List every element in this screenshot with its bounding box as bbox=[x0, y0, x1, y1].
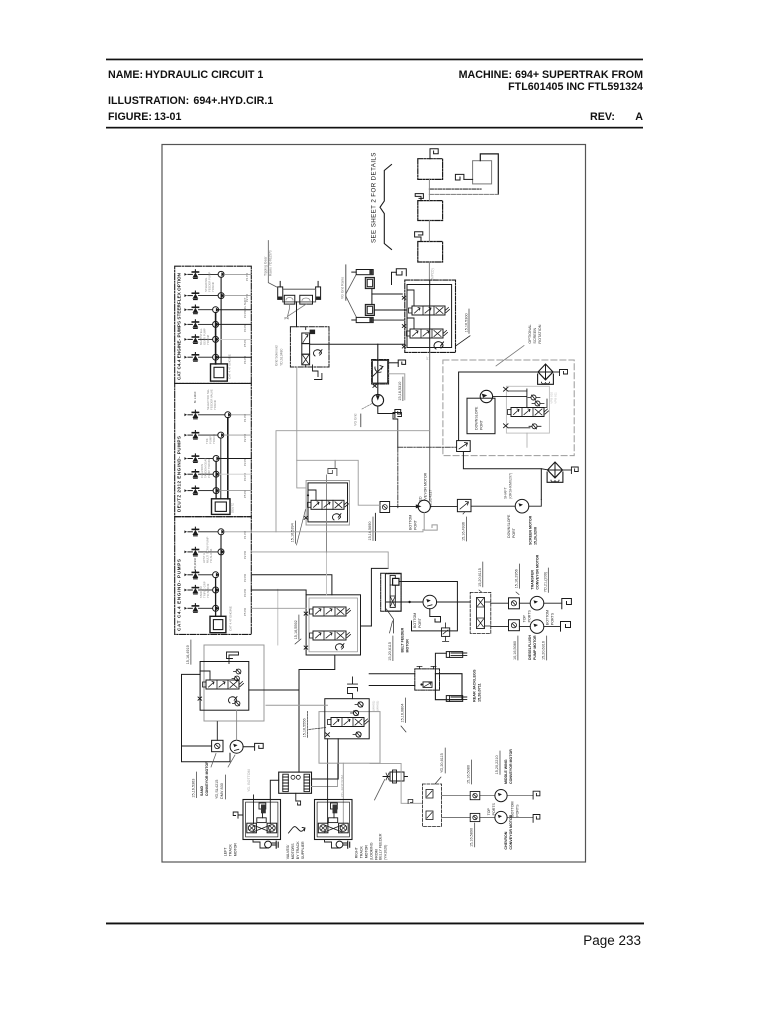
vg valve top bbox=[365, 277, 374, 288]
svg-text:YD,20,6115: YD,20,6115 bbox=[440, 753, 444, 773]
svg-text:P5 PR: P5 PR bbox=[243, 339, 247, 347]
box3 check valve row 1 bbox=[184, 527, 198, 536]
feed conveyor motor bbox=[416, 500, 431, 512]
chevron dashed box bbox=[422, 784, 441, 826]
squiggle arrow bbox=[289, 827, 306, 833]
svg-text:PT: PT bbox=[426, 356, 430, 360]
svg-text:CONVEYOR MOTOR: CONVEYOR MOTOR bbox=[205, 761, 209, 796]
belt feeder motor label bbox=[401, 627, 410, 652]
valve block V4 bbox=[381, 573, 401, 633]
relief a bbox=[234, 669, 241, 674]
svg-text:(YH1026): (YH1026) bbox=[384, 845, 388, 860]
wire bbox=[199, 434, 218, 436]
svg-text:BOTTOM: BOTTOM bbox=[408, 515, 412, 530]
wire box1 r4 bbox=[219, 323, 252, 325]
sand conveyor motor label bbox=[200, 761, 209, 796]
wire gray bbox=[266, 704, 328, 706]
port hook bbox=[398, 360, 405, 367]
manifold bbox=[279, 772, 312, 793]
svg-text:TRACK: TRACK bbox=[229, 844, 233, 857]
leader dash bbox=[362, 404, 372, 410]
svg-text:YD,SL6049: YD,SL6049 bbox=[206, 583, 210, 598]
svg-text:15,26,3208: 15,26,3208 bbox=[533, 527, 537, 545]
wire bbox=[327, 739, 329, 824]
brace bbox=[380, 165, 392, 250]
wire bbox=[553, 371, 560, 373]
vg valve bottom bbox=[365, 304, 374, 315]
wire gray bbox=[370, 763, 422, 803]
wire bbox=[480, 154, 498, 195]
svg-text:PORT: PORT bbox=[418, 617, 422, 628]
wire jog bbox=[407, 290, 414, 306]
box1 pump P3 bbox=[213, 307, 219, 313]
box2 check valve row 3 bbox=[184, 454, 198, 463]
label 15,16,0804 bbox=[400, 698, 406, 732]
wire bbox=[493, 389, 527, 408]
wire bbox=[375, 780, 385, 801]
tank T4 bbox=[418, 242, 443, 263]
valves by track supplier label bbox=[286, 841, 305, 859]
svg-text:MOTOR: MOTOR bbox=[234, 843, 238, 857]
X mark bbox=[326, 733, 330, 737]
wire bbox=[199, 414, 225, 416]
svg-text:SUPPLIER: SUPPLIER bbox=[301, 841, 305, 859]
relief c bbox=[233, 701, 240, 706]
wire box2 r1 bbox=[231, 414, 252, 416]
label 15,20,2210 bbox=[495, 751, 500, 774]
svg-text:CONVEYOR MOTOR: CONVEYOR MOTOR bbox=[536, 554, 540, 589]
wire bbox=[296, 302, 298, 327]
downslope port label bbox=[507, 514, 516, 538]
svg-text:PORTS: PORTS bbox=[492, 802, 496, 815]
box2 pump bus wire 3 bbox=[215, 462, 217, 499]
wire bbox=[529, 499, 542, 506]
box3 gray label block 2 bbox=[199, 581, 210, 598]
svg-text:MOTOR: MOTOR bbox=[364, 845, 368, 859]
optional screen rotation label bbox=[528, 324, 542, 343]
rotation diamond D2 bbox=[547, 462, 563, 482]
wire bbox=[390, 505, 418, 507]
tipping gear label bbox=[264, 250, 273, 276]
tiny gray labels bbox=[372, 701, 380, 711]
svg-text:A: A bbox=[635, 111, 643, 123]
box3 check valve row 2 bbox=[184, 547, 198, 556]
wire box2 r5 bbox=[219, 490, 251, 492]
box1 gray label block bbox=[204, 272, 215, 292]
label 15,16,4936 bbox=[462, 512, 467, 541]
svg-text:YD. BOTTOM: YD. BOTTOM bbox=[341, 775, 345, 797]
svg-text:LEFT: LEFT bbox=[224, 847, 228, 857]
box3 check valve row 4 bbox=[184, 585, 198, 594]
wire L path bbox=[182, 674, 231, 761]
svg-text:PORT: PORT bbox=[413, 519, 417, 530]
port hook bbox=[561, 622, 571, 632]
bottom ports label bbox=[510, 801, 519, 816]
top ports label bbox=[487, 802, 496, 815]
valve block V5 gray outer bbox=[204, 645, 264, 721]
wire bbox=[288, 304, 307, 316]
pilot arrow bbox=[336, 644, 344, 650]
svg-text:P5 PR: P5 PR bbox=[243, 608, 247, 616]
label 15,16,2956 bbox=[515, 564, 520, 595]
box3 check valve row 5 bbox=[184, 604, 198, 613]
wire bbox=[182, 745, 212, 747]
wire box3 r4 bbox=[251, 590, 306, 595]
wire bbox=[199, 323, 213, 325]
svg-text:OPTIONAL: OPTIONAL bbox=[528, 324, 532, 343]
box2 engine block bbox=[212, 499, 231, 515]
wire jog bbox=[200, 671, 210, 680]
suction dash line bbox=[429, 188, 481, 190]
wire bbox=[389, 362, 399, 364]
mpcd return wire bbox=[526, 433, 528, 447]
svg-text:15,16,5363: 15,16,5363 bbox=[192, 779, 196, 798]
return dash line bbox=[429, 193, 498, 195]
svg-text:PORTS: PORTS bbox=[551, 612, 555, 625]
wire box3 r5 bbox=[251, 607, 306, 609]
boundary dash line bbox=[398, 447, 457, 507]
box2 check valve row 5 bbox=[184, 486, 198, 495]
valve block V1 inner bbox=[407, 285, 452, 348]
vpb labels bbox=[550, 392, 558, 404]
svg-text:(LOOKING: (LOOKING bbox=[369, 842, 373, 860]
wire box3 r1 bbox=[224, 531, 276, 533]
wire bbox=[491, 602, 562, 604]
wire box1 r1 bbox=[224, 273, 251, 275]
box1 row port labels bbox=[243, 273, 249, 364]
port hook bbox=[562, 599, 572, 609]
label 15,16,5394 bbox=[291, 510, 306, 546]
wire box1 r2 bbox=[224, 295, 251, 297]
box1 check valve row 5 bbox=[184, 335, 198, 344]
valve block V6 gray outer bbox=[319, 712, 380, 764]
svg-text:P5 PR: P5 PR bbox=[243, 490, 247, 498]
screen motor bbox=[515, 499, 529, 513]
port hook bbox=[227, 652, 239, 664]
svg-text:15,20,6316: 15,20,6316 bbox=[542, 641, 546, 660]
box1 pump bus wire bbox=[220, 277, 222, 364]
X mark bbox=[402, 345, 405, 348]
port hook bbox=[243, 743, 263, 750]
label 15,20,6115 bbox=[388, 621, 393, 661]
svg-text:15,20,6115: 15,20,6115 bbox=[478, 568, 482, 587]
rear jacklegs lines bbox=[369, 674, 415, 686]
wire bbox=[386, 601, 423, 603]
tank T3 port hook bbox=[415, 194, 423, 201]
manifold gauges bbox=[291, 775, 300, 779]
vg ram bottom bbox=[352, 317, 373, 322]
svg-text:BOTTOM: BOTTOM bbox=[546, 610, 550, 625]
tank T3 bbox=[418, 201, 443, 221]
wire bbox=[430, 505, 457, 507]
downslope port box bbox=[467, 398, 495, 434]
wire dot bbox=[307, 494, 309, 496]
gray enclosure bbox=[297, 460, 380, 505]
pump box 1 border (CAT C4.4 STEERFLEX) bbox=[175, 266, 252, 383]
vg pump bbox=[372, 394, 384, 406]
svg-text:TOP: TOP bbox=[522, 614, 526, 622]
tank T1 breather port bbox=[430, 149, 438, 159]
svg-text:(WH02): (WH02) bbox=[376, 701, 380, 711]
port hook bbox=[571, 467, 578, 474]
box1 check valve row 3 bbox=[184, 305, 198, 314]
label YD.SL4215 bbox=[215, 775, 226, 799]
transfer motor A bbox=[530, 596, 544, 610]
wire gray bbox=[312, 763, 338, 786]
left track motor label bbox=[224, 843, 238, 857]
box1 pump P1 bbox=[218, 271, 224, 277]
svg-text:YD,SL4215: YD,SL4215 bbox=[215, 780, 219, 799]
svg-text:15,20,2210: 15,20,2210 bbox=[495, 755, 499, 774]
X mark bbox=[402, 296, 405, 299]
svg-text:PR,11910: PR,11910 bbox=[193, 557, 197, 570]
wire bbox=[297, 460, 306, 488]
port hook bbox=[424, 513, 437, 531]
grid solenoid box bbox=[290, 327, 329, 367]
box1 check valve row 4 bbox=[184, 320, 198, 329]
pump box 3 border (CAT C4.4) bbox=[175, 517, 252, 635]
wire bbox=[313, 365, 322, 380]
feed conveyor motor label bbox=[419, 472, 433, 507]
svg-text:PORT: PORT bbox=[480, 419, 484, 430]
X mark bbox=[304, 646, 308, 649]
relief b bbox=[232, 676, 239, 681]
svg-text:MIDDLE WING: MIDDLE WING bbox=[504, 759, 508, 784]
wire bbox=[346, 296, 356, 317]
svg-text:Grid Solenoid: Grid Solenoid bbox=[275, 345, 279, 366]
wire box2 r2 bbox=[224, 434, 252, 436]
svg-text:NAME: HYDRAULIC CIRCUIT 1: NAME: HYDRAULIC CIRCUIT 1 bbox=[108, 69, 263, 81]
pilot arrow bbox=[434, 342, 443, 349]
box3 row port labels bbox=[243, 531, 247, 616]
port hook bbox=[396, 269, 406, 276]
leader wire bbox=[268, 241, 276, 287]
wire bbox=[199, 589, 213, 591]
tank T1 bbox=[418, 159, 443, 180]
wire gray bbox=[389, 374, 405, 400]
spool valve S7 bbox=[328, 718, 369, 727]
svg-text:CAT C4.4 ENGINE- PUMPS STEERFL: CAT C4.4 ENGINE- PUMPS STEERFLEX OPTION bbox=[177, 272, 182, 380]
port hook bbox=[233, 812, 243, 818]
svg-text:P3 PR: P3 PR bbox=[243, 574, 247, 582]
wire bbox=[305, 365, 307, 367]
svg-text:YD6048: YD6048 bbox=[212, 433, 216, 444]
rotation valve cluster gray box bbox=[506, 386, 549, 433]
valve VS1 on boundary bbox=[457, 441, 471, 452]
svg-text:DEUTZ 2012 ENGIND- PUMPS: DEUTZ 2012 ENGIND- PUMPS bbox=[177, 436, 182, 512]
valve block V5 bbox=[200, 662, 249, 711]
wire bbox=[372, 293, 402, 295]
svg-text:BOTTOM: BOTTOM bbox=[510, 801, 514, 816]
wire bbox=[371, 568, 388, 626]
label 15,20,6316 bbox=[542, 636, 547, 660]
belly feeder label bbox=[379, 833, 388, 860]
wire bbox=[373, 319, 405, 321]
box1 pump P2 bbox=[218, 293, 224, 299]
box3 pump P4 bbox=[213, 587, 219, 593]
wire bbox=[199, 607, 213, 609]
wire bbox=[199, 458, 214, 460]
wire loop bbox=[399, 582, 457, 631]
tank T2 bbox=[473, 161, 492, 184]
wire bbox=[216, 722, 218, 741]
tipping valve right bbox=[300, 295, 313, 304]
middle wing motor bbox=[495, 790, 507, 802]
svg-text:P4: P4 bbox=[285, 317, 289, 321]
svg-text:15,16,2956: 15,16,2956 bbox=[515, 569, 519, 588]
wire bbox=[541, 469, 548, 470]
valve block V3 (15,16,5592) bbox=[306, 595, 360, 655]
svg-text:Rams YD762570: Rams YD762570 bbox=[269, 250, 273, 276]
svg-text:CHEVRON: CHEVRON bbox=[504, 831, 508, 849]
jackleg wire loop bbox=[435, 674, 462, 700]
svg-text:BELT FEEDER: BELT FEEDER bbox=[401, 627, 405, 652]
middle wing label bbox=[504, 749, 513, 784]
svg-text:15,16,4919: 15,16,4919 bbox=[186, 645, 190, 664]
junction bbox=[408, 601, 410, 603]
svg-text:P4 PR: P4 PR bbox=[243, 589, 247, 597]
svg-text:CONVEYOR MOTOR: CONVEYOR MOTOR bbox=[509, 749, 513, 784]
svg-text:15,16,4936: 15,16,4936 bbox=[462, 522, 466, 541]
wire bbox=[392, 272, 397, 284]
relief c bbox=[353, 732, 361, 737]
valve block V2 inner bbox=[308, 483, 348, 522]
X mark bbox=[304, 516, 308, 519]
rear jacklegs label bbox=[473, 669, 482, 702]
svg-text:DOWNSLOPE: DOWNSLOPE bbox=[507, 514, 511, 538]
wire bbox=[442, 817, 534, 819]
label 15,16,5300 bbox=[456, 309, 471, 346]
belt feeder motor bbox=[423, 595, 437, 609]
wire bbox=[199, 295, 219, 297]
wire jog bbox=[407, 318, 414, 329]
port square A bbox=[509, 598, 520, 609]
label 15,20,4115 bbox=[478, 562, 483, 592]
svg-text:YD6048: YD6048 bbox=[206, 334, 210, 345]
svg-text:P3 PR: P3 PR bbox=[243, 458, 247, 466]
svg-text:SAND: SAND bbox=[200, 786, 204, 797]
relief a bbox=[355, 702, 363, 707]
box2 check valve row 4 bbox=[184, 470, 198, 479]
label 15,16,5363 bbox=[192, 772, 197, 798]
relief b bbox=[351, 710, 359, 715]
box2 pump bus wire 2 bbox=[220, 438, 222, 499]
tipping manifold bbox=[283, 289, 316, 302]
spool valve S4 bbox=[310, 607, 351, 616]
right track motor label bbox=[354, 842, 378, 860]
valve block V2 gray outer bbox=[306, 481, 349, 526]
box2 pump P5 bbox=[213, 488, 219, 494]
wire box1 r6 bbox=[219, 356, 252, 358]
wire bbox=[312, 739, 339, 779]
box3 gray label block bbox=[202, 537, 213, 563]
svg-text:YD,SL6044: YD,SL6044 bbox=[209, 548, 213, 563]
wire bbox=[334, 460, 336, 468]
svg-text:BOTTOM: BOTTOM bbox=[413, 613, 417, 628]
top ports label bbox=[522, 609, 531, 622]
wire bbox=[199, 338, 213, 340]
wire bbox=[288, 304, 290, 316]
manifold stack L bbox=[283, 774, 289, 791]
port hook bbox=[533, 791, 540, 799]
svg-text:SEE SHEET 2 FOR DETAILS: SEE SHEET 2 FOR DETAILS bbox=[371, 152, 378, 243]
X mark bbox=[402, 325, 405, 328]
tank T2 port hook bbox=[455, 174, 464, 180]
spool valve S5 bbox=[310, 631, 351, 640]
tipping ram left bbox=[278, 281, 283, 299]
svg-text:SCREEN: SCREEN bbox=[533, 328, 537, 344]
leader wire bbox=[345, 265, 347, 300]
svg-text:VG Grid: VG Grid bbox=[354, 413, 358, 425]
port square B bbox=[509, 620, 520, 631]
spool valve S2 bbox=[407, 329, 448, 338]
header bottom rule bbox=[106, 127, 643, 129]
grid solenoid label bbox=[275, 345, 284, 366]
transfer motor B bbox=[530, 620, 544, 634]
chevron label bbox=[504, 814, 513, 849]
svg-text:YD6040: YD6040 bbox=[213, 399, 217, 410]
svg-text:P2 PR: P2 PR bbox=[243, 551, 247, 559]
label 15,16,5080 bbox=[467, 760, 472, 784]
wire bbox=[254, 795, 271, 824]
svg-text:VALVES/: VALVES/ bbox=[286, 845, 290, 859]
spool valve S3 bbox=[308, 500, 349, 509]
port hook bbox=[348, 677, 358, 699]
svg-text:Page 233: Page 233 bbox=[583, 933, 641, 948]
box2 pump bus wire bbox=[227, 418, 229, 499]
wire bbox=[464, 178, 473, 180]
svg-text:15,16,5300: 15,16,5300 bbox=[464, 313, 468, 332]
svg-text:REV:: REV: bbox=[590, 111, 615, 123]
wire jog bbox=[308, 490, 316, 500]
port diamond B bbox=[470, 813, 480, 821]
svg-text:15,16,5890: 15,16,5890 bbox=[470, 828, 474, 847]
wire bbox=[463, 452, 541, 500]
port square bbox=[380, 502, 390, 513]
jackleg valve enclosure bbox=[415, 666, 440, 690]
svg-text:PORTS: PORTS bbox=[515, 804, 519, 817]
callout wire bbox=[496, 346, 524, 367]
svg-text:TRANSFER: TRANSFER bbox=[531, 570, 535, 590]
wire box3 r2 bbox=[251, 552, 388, 569]
port hook bbox=[430, 609, 441, 622]
svg-text:15,26,0711: 15,26,0711 bbox=[478, 683, 482, 702]
rotation pump bbox=[480, 390, 492, 402]
pilot arrow bbox=[333, 514, 341, 520]
valve block V6 bbox=[325, 699, 369, 739]
shaft label bbox=[504, 473, 513, 499]
figure border box bbox=[162, 145, 586, 863]
wire bbox=[270, 780, 278, 799]
label 15,16,5890 bbox=[470, 823, 475, 847]
box1 pump P5 bbox=[213, 336, 219, 342]
box2 gray label block bbox=[206, 388, 217, 410]
vg grid leader bbox=[360, 414, 362, 427]
box1 pump P4 bbox=[213, 321, 219, 327]
relief valve bbox=[442, 623, 450, 642]
relief valve c bbox=[529, 424, 541, 429]
label 15,16,5592 bbox=[294, 615, 301, 644]
wire box1 r3 bbox=[219, 309, 252, 311]
box1 gray label block 2 bbox=[199, 328, 210, 345]
relief valve b bbox=[532, 401, 544, 406]
bottom port label bbox=[413, 613, 422, 628]
wire screen supply bbox=[326, 553, 328, 595]
jackleg cylinder top bbox=[435, 652, 466, 674]
svg-text:SHAFT: SHAFT bbox=[504, 486, 508, 499]
footer rule bbox=[106, 923, 644, 925]
pump box 2 border (DEUTZ 2012) bbox=[175, 383, 252, 516]
